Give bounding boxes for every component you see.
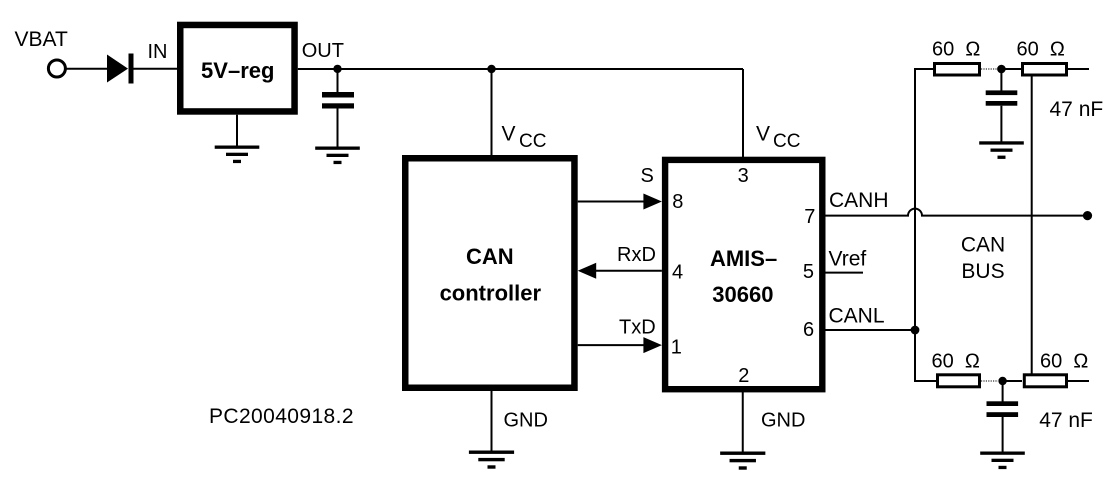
- capacitor C1: [322, 92, 354, 109]
- IC CAN controller: [405, 158, 574, 388]
- wire S arrow: [578, 194, 662, 210]
- wire bottom cap to ground: [1002, 417, 1004, 452]
- svg-text:GND: GND: [761, 409, 805, 431]
- svg-text:VBAT: VBAT: [15, 28, 68, 51]
- wire Vref stub: [826, 272, 864, 274]
- svg-text:60 Ω: 60 Ω: [932, 351, 980, 373]
- svg-text:5V–reg: 5V–reg: [201, 58, 274, 83]
- wire TxD arrow: [578, 337, 662, 353]
- capacitor 47nF top: [986, 90, 1018, 105]
- resistor bottom left 60ohm: [938, 375, 980, 387]
- wire bottom termination center right: [1003, 380, 1022, 382]
- svg-text:30660: 30660: [712, 282, 773, 307]
- capacitor 47nF bottom: [987, 401, 1019, 417]
- wire RxD arrow: [578, 263, 662, 279]
- label VCC controller: [502, 123, 547, 153]
- wire CAN controller ground: [491, 388, 493, 451]
- svg-text:5: 5: [803, 261, 814, 283]
- svg-text:BUS: BUS: [961, 260, 1004, 283]
- wire dotted bottom termination: [981, 380, 998, 382]
- svg-text:2: 2: [738, 365, 749, 387]
- svg-text:4: 4: [672, 262, 683, 284]
- svg-text:60 Ω: 60 Ω: [1040, 351, 1088, 373]
- svg-text:OUT: OUT: [302, 40, 344, 62]
- resistor bottom right 60ohm: [1024, 375, 1066, 387]
- svg-text:47 nF: 47 nF: [1050, 98, 1104, 121]
- wire 5V rail: [298, 68, 743, 70]
- svg-text:CAN: CAN: [466, 244, 514, 269]
- svg-text:V: V: [756, 123, 770, 146]
- svg-text:47 nF: 47 nF: [1039, 409, 1093, 432]
- ground top termination: [979, 141, 1024, 159]
- junction OUT node: [333, 65, 341, 73]
- junction VCC controller: [487, 65, 495, 73]
- wire diode to regulator IN: [134, 68, 178, 70]
- svg-text:60 Ω: 60 Ω: [1017, 39, 1065, 61]
- wire top termination right stub: [1068, 68, 1089, 70]
- wire VCC down to CAN controller: [491, 69, 493, 156]
- wire bottom termination left corner: [915, 330, 936, 381]
- node VBAT terminal: [48, 60, 65, 77]
- label VCC transceiver: [756, 123, 800, 153]
- ground AMIS: [720, 452, 765, 470]
- wire CANL: [826, 329, 916, 331]
- svg-text:CC: CC: [773, 131, 800, 152]
- svg-text:RxD: RxD: [617, 244, 656, 266]
- ground regulator: [215, 146, 260, 164]
- wire AMIS pin 2 ground: [742, 389, 744, 452]
- svg-text:TxD: TxD: [619, 317, 656, 339]
- svg-text:Vref: Vref: [829, 247, 867, 270]
- wire C1 to ground: [337, 109, 339, 148]
- wire dotted top termination: [981, 68, 997, 70]
- wire VCC down to AMIS pin 3: [742, 69, 744, 158]
- wire top termination left: [915, 68, 933, 70]
- node CANH bus end: [1083, 211, 1092, 220]
- svg-text:GND: GND: [504, 409, 548, 431]
- resistor top left 60ohm: [935, 64, 980, 76]
- ground bottom termination: [980, 452, 1025, 470]
- svg-text:PC20040918.2: PC20040918.2: [209, 405, 354, 428]
- svg-text:CANH: CANH: [829, 189, 889, 212]
- svg-text:AMIS–: AMIS–: [710, 246, 777, 271]
- junction top termination center: [997, 65, 1006, 74]
- wire junction to C1: [337, 69, 339, 93]
- wire top cap: [1000, 69, 1002, 91]
- svg-text:controller: controller: [440, 280, 542, 305]
- svg-text:7: 7: [804, 206, 815, 228]
- svg-text:3: 3: [738, 165, 749, 187]
- svg-text:CAN: CAN: [961, 233, 1005, 256]
- wire VBAT to diode: [65, 68, 107, 70]
- wire left bus vertical: [914, 68, 916, 381]
- ground CAN controller: [469, 451, 514, 469]
- wire bottom cap: [1002, 381, 1004, 402]
- ground C1: [315, 147, 360, 165]
- svg-text:S: S: [641, 165, 654, 187]
- regulator 5V-reg: [180, 25, 294, 112]
- junction bottom termination center: [998, 377, 1006, 385]
- wire top termination center right: [1001, 68, 1021, 70]
- junction CANL bus: [911, 326, 920, 335]
- svg-text:8: 8: [672, 191, 683, 213]
- svg-text:1: 1: [671, 337, 682, 359]
- wire bottom termination right stub: [1068, 380, 1089, 382]
- svg-text:CANL: CANL: [829, 304, 885, 327]
- svg-text:6: 6: [803, 319, 814, 341]
- diode D1: [107, 54, 134, 84]
- svg-text:IN: IN: [148, 41, 168, 63]
- wire CANH with hop: [826, 209, 1088, 216]
- resistor top right 60ohm: [1023, 64, 1067, 76]
- svg-text:V: V: [502, 123, 516, 146]
- wire regulator ground: [236, 115, 238, 146]
- svg-text:CC: CC: [519, 131, 546, 152]
- wire top cap to ground: [1000, 106, 1002, 142]
- svg-text:60 Ω: 60 Ω: [932, 39, 980, 61]
- IC AMIS-30660: [665, 160, 822, 389]
- wire right bus vertical: [1031, 77, 1033, 374]
